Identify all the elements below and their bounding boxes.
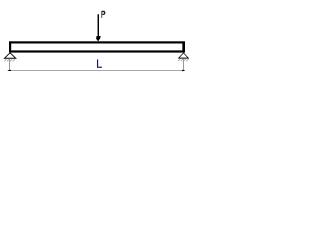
label P <box>101 11 105 18</box>
load arrowhead <box>96 36 100 41</box>
beam right end cap (thicker inner side) <box>181 43 184 50</box>
beam (rectangle body) <box>10 42 184 51</box>
right support triangle <box>179 53 189 58</box>
right dim arrowhead <box>182 70 185 71</box>
left support hatching <box>4 59 15 62</box>
right extension line <box>183 59 185 71</box>
left support triangle <box>4 53 15 58</box>
left dim arrowhead <box>7 70 11 71</box>
dimension line <box>8 70 184 72</box>
label L <box>97 59 102 67</box>
left extension line <box>9 59 11 71</box>
load arrow P shaft <box>98 14 99 36</box>
right support hatching <box>178 59 189 62</box>
